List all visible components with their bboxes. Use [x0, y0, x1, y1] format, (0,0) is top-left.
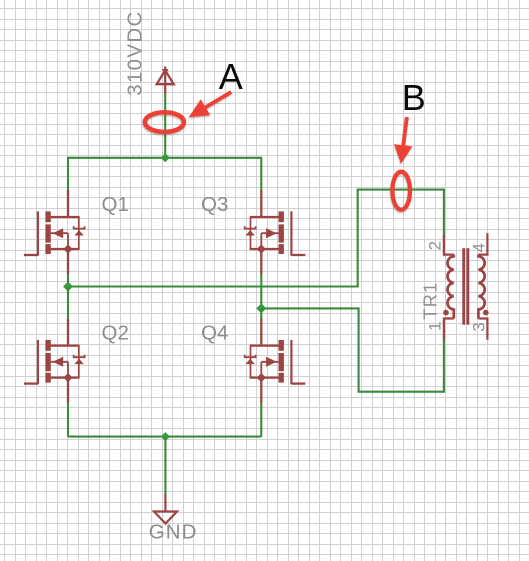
wire node A net to TR1 pin2 [358, 190, 444, 288]
svg-text:1: 1 [426, 322, 445, 331]
wire GND drop [164, 437, 166, 494]
pin 4 [478, 233, 487, 254]
primary winding [448, 255, 454, 319]
svg-text:B: B [402, 77, 426, 118]
wire mid-right rail [261, 307, 358, 309]
junction top rail [161, 153, 170, 162]
wire Q2 source to bottom rail [67, 402, 69, 437]
junction bottom rail [161, 432, 170, 441]
annotation ellipse B [392, 172, 410, 210]
svg-text:TR1: TR1 [420, 282, 440, 320]
transistor Q1 [24, 190, 85, 274]
wire Q4 drain [260, 308, 262, 319]
svg-text:Q4: Q4 [201, 322, 228, 345]
annotation arrow A [189, 90, 233, 117]
wire top rail to Q3 drain [260, 157, 262, 192]
secondary phase dot [483, 310, 489, 316]
wire Q1 source to node [67, 273, 69, 287]
pin 2 [444, 235, 454, 255]
ground symbol [154, 494, 177, 524]
secondary winding [478, 255, 484, 319]
wire top rail [68, 157, 261, 159]
supply symbol 310VDC [157, 67, 174, 94]
svg-text:3: 3 [469, 322, 488, 331]
transistor Q4 [245, 319, 306, 403]
wire Q4 source to bottom rail [260, 402, 262, 437]
primary phase dot [443, 310, 449, 316]
core [462, 248, 465, 325]
wire top rail to Q1 drain [67, 157, 69, 192]
svg-text:GND: GND [149, 521, 198, 544]
wire Q3 source to node [260, 273, 262, 308]
junction mid-left node [63, 282, 73, 292]
pin 1 [444, 319, 454, 340]
pin 3 [478, 319, 487, 340]
transistor Q2 [24, 319, 85, 403]
annotation ellipse A [145, 112, 184, 132]
transformer TR1 [443, 233, 488, 340]
wire mid-left rail [68, 285, 358, 287]
svg-text:Q3: Q3 [201, 193, 228, 216]
svg-text:Q1: Q1 [102, 193, 129, 216]
wire bottom rail [68, 436, 261, 438]
svg-text:4: 4 [469, 243, 488, 252]
wire node B net to TR1 pin1 [359, 307, 444, 391]
junction mid-right node [256, 303, 266, 313]
svg-text:A: A [219, 56, 243, 97]
svg-text:310VDC: 310VDC [124, 10, 146, 95]
annotation arrow B [394, 117, 412, 164]
svg-text:2: 2 [426, 241, 445, 250]
transistor Q3 [245, 190, 306, 274]
wire supply to top rail [164, 93, 166, 158]
wire Q2 drain [67, 287, 69, 320]
svg-text:Q2: Q2 [102, 322, 129, 345]
